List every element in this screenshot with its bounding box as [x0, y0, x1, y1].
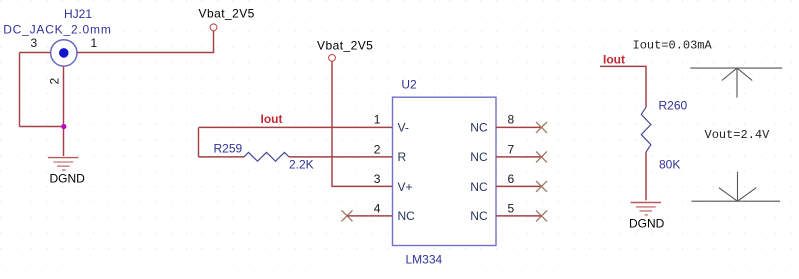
ground DGND (left) [48, 158, 78, 170]
wire: pin 7 stub [496, 156, 542, 158]
wire: pin 5 stub [496, 215, 542, 217]
svg-text:Vout=2.4V: Vout=2.4V [705, 128, 771, 142]
svg-text:R: R [398, 150, 407, 164]
svg-text:2.2K: 2.2K [289, 158, 314, 172]
wire: pin 8 stub [496, 126, 542, 128]
svg-text:Iout: Iout [603, 53, 625, 67]
svg-text:NC: NC [470, 120, 488, 134]
wire: to R259 left terminal [199, 156, 245, 158]
svg-text:NC: NC [470, 150, 488, 164]
ground DGND (right) [631, 203, 661, 215]
svg-text:LM334: LM334 [406, 253, 443, 267]
svg-text:NC: NC [470, 209, 488, 223]
no-connect X on pin 7 [536, 151, 547, 162]
wire: pin 4 stub [347, 215, 393, 217]
svg-text:R259: R259 [214, 142, 243, 156]
resistor R260 (vertical zigzag) [641, 107, 651, 152]
svg-text:Vbat_2V5: Vbat_2V5 [199, 7, 255, 21]
wire: pin 6 stub [496, 185, 542, 187]
svg-text:3: 3 [374, 172, 381, 186]
svg-text:5: 5 [508, 201, 515, 215]
svg-text:6: 6 [508, 172, 515, 186]
svg-text:DGND: DGND [50, 172, 86, 186]
svg-text:NC: NC [470, 180, 488, 194]
wire: Iout stub to R260 [600, 66, 646, 107]
svg-text:1: 1 [374, 113, 381, 127]
wire: R260 bottom to ground [645, 152, 647, 200]
junction dot [61, 124, 66, 129]
svg-text:R260: R260 [659, 99, 688, 113]
power port Vbat_2V5 (middle) [329, 54, 336, 61]
svg-text:DC_JACK_2.0mm: DC_JACK_2.0mm [3, 23, 111, 37]
wire: jack pin3 to left [20, 52, 51, 54]
svg-text:4: 4 [374, 201, 381, 215]
svg-text:Iout=0.03mA: Iout=0.03mA [633, 38, 713, 52]
svg-text:3: 3 [31, 36, 38, 50]
wire: Vbat_2V5 down to pin3 (V+) [332, 61, 393, 186]
svg-text:NC: NC [398, 209, 416, 223]
svg-text:7: 7 [508, 142, 515, 156]
svg-text:DGND: DGND [629, 217, 665, 231]
arrow up at top probe [722, 68, 752, 98]
svg-text:2: 2 [374, 142, 381, 156]
probe line bottom (Vout- reference) [691, 200, 780, 202]
svg-text:1: 1 [91, 36, 98, 50]
connector HJ21 symbol (DC jack) [51, 40, 77, 66]
svg-text:8: 8 [508, 113, 515, 127]
svg-text:Vbat_2V5: Vbat_2V5 [317, 39, 373, 53]
wire: pin1 net (V-) [199, 126, 393, 128]
wire: bottom horizontal to junction [20, 126, 64, 128]
wire: jack pin1 to Vbat_2V5 [77, 31, 213, 53]
svg-text:80K: 80K [659, 158, 680, 172]
svg-text:2: 2 [48, 78, 62, 85]
svg-text:Iout: Iout [261, 112, 283, 126]
resistor R259 (horizontal zigzag) [244, 152, 289, 161]
probe line top (Vout+ reference) [690, 67, 782, 69]
svg-text:U2: U2 [401, 78, 417, 92]
wire: vertical drop to resistor row [198, 127, 200, 156]
no-connect X on pin 5 [536, 210, 547, 221]
op-amp U2 body (LM334 box) [393, 97, 497, 245]
no-connect X on pin 8 [536, 122, 547, 133]
svg-text:V+: V+ [398, 180, 413, 194]
wire: R259 to pin2 (R) [289, 156, 393, 158]
no-connect X on pin 6 [536, 181, 547, 192]
wire: jack pin2 down to ground [63, 66, 65, 156]
arrow down at bottom probe [719, 172, 756, 202]
svg-text:V-: V- [398, 120, 409, 134]
svg-text:HJ21: HJ21 [64, 7, 92, 21]
power port Vbat_2V5 (left) [210, 24, 217, 31]
no-connect X on pin 4 [342, 210, 353, 221]
wire: left vertical down [19, 53, 21, 127]
